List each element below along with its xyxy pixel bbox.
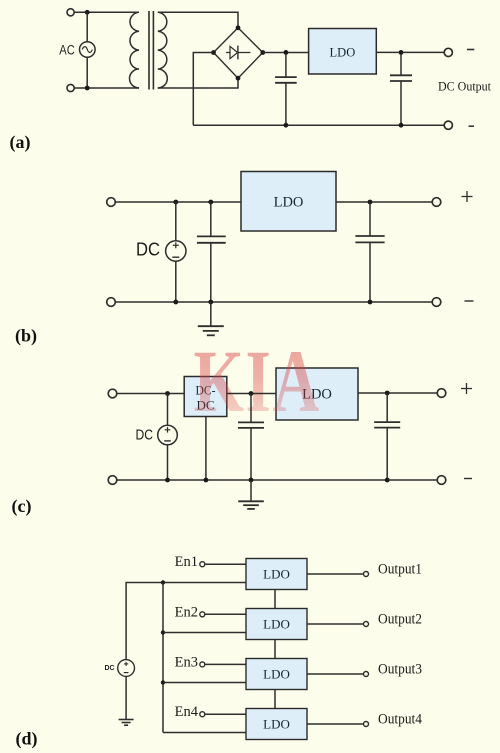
svg-text:LDO: LDO [263, 666, 290, 681]
regulator U1 LDO [309, 29, 377, 75]
terminal: b output minus [432, 298, 441, 307]
regulator U8 LDO [246, 709, 307, 740]
junction: c C6 top [385, 391, 390, 396]
junction: C2 top [399, 50, 404, 55]
wire: d DC to ground [125, 676, 127, 719]
junction: b C3 top [208, 200, 213, 205]
wire: En2 [205, 613, 246, 615]
junction: bridge bottom [236, 76, 241, 81]
regulator U2 LDO [241, 172, 336, 232]
wire: link U7-U8 [274, 690, 276, 709]
label: output top dash [467, 49, 474, 51]
wire: secondary bottom to bridge [158, 78, 238, 88]
wire: bottom rail (a) [193, 124, 444, 126]
junction: AC bottom [85, 86, 90, 91]
wire: LDO to output [376, 51, 444, 53]
DC source V2 [166, 241, 186, 261]
ground: c [238, 480, 264, 509]
svg-text:(b): (b) [15, 326, 37, 347]
junction: c C5 top [249, 391, 254, 396]
svg-text:LDO: LDO [263, 716, 290, 731]
wire: branch LDO3 [163, 682, 246, 684]
bridge rectifier D1 [214, 28, 263, 78]
label: c minus sign [464, 478, 472, 480]
terminal: DC output minus [444, 121, 452, 129]
capacitor C2 [390, 52, 412, 125]
junction: b gnd [208, 300, 213, 305]
svg-text:En3: En3 [175, 654, 198, 670]
terminal: En4 [200, 712, 205, 717]
wire: Output3 [307, 673, 363, 675]
transformer T1 core [149, 11, 153, 90]
svg-text:LDO: LDO [263, 566, 290, 581]
wire: En3 [205, 663, 246, 665]
capacitor C6 [374, 393, 400, 480]
label: b minus sign [465, 300, 474, 302]
wire: b output [336, 201, 433, 203]
wire: d supply bus [162, 583, 164, 733]
regulator U3 DC-DC [184, 377, 227, 417]
regulator U4 LDO [276, 368, 358, 420]
terminal: b input bottom [107, 298, 116, 307]
wire: top-left lead [74, 11, 139, 13]
terminal: Output2 [364, 622, 369, 627]
svg-text:Output2: Output2 [378, 612, 422, 628]
wire: Output1 [307, 573, 363, 575]
wire: link U6-U7 [274, 640, 276, 659]
label: b plus sign [462, 191, 473, 202]
terminal: En1 [200, 562, 205, 567]
label: c plus sign [461, 383, 472, 394]
wire: AC source vertical [86, 12, 88, 88]
junction: d bus top [161, 580, 165, 584]
wire: bottom-left lead [74, 87, 139, 89]
terminal: c output plus [437, 389, 446, 398]
terminal: b input top [107, 198, 116, 207]
terminal: c input bottom [108, 476, 117, 485]
junction: c DC bottom [165, 478, 170, 483]
terminal: DC output plus [444, 48, 452, 56]
wire: En4 [205, 713, 246, 715]
svg-text:(d): (d) [16, 729, 38, 750]
svg-text:LDO: LDO [274, 195, 304, 211]
svg-text:DC: DC [136, 428, 154, 444]
wire: branch LDO2 [163, 632, 246, 634]
junction: AC top [85, 10, 90, 15]
junction: bridge left [211, 50, 216, 55]
wire: c output [358, 392, 438, 394]
wire: bridge left to bottom rail [193, 53, 213, 126]
terminal: AC input bottom [67, 84, 74, 91]
wire: En1 [205, 563, 246, 565]
regulator U5 LDO [246, 559, 307, 590]
wire: d supply riser [126, 583, 246, 660]
wire: bridge right to LDO [263, 52, 309, 54]
svg-text:En4: En4 [175, 704, 199, 720]
junction: bridge right [260, 50, 265, 55]
terminal: AC input top [67, 9, 74, 16]
ground: d [119, 720, 134, 726]
wire: c bottom rail [116, 479, 437, 481]
junction: c DCDC gnd [204, 478, 209, 483]
wire: secondary top to bridge [158, 12, 238, 27]
wire: Output2 [307, 623, 363, 625]
svg-text:AC: AC [59, 43, 75, 58]
svg-text:DC: DC [105, 665, 115, 672]
DC source V4 [118, 660, 135, 677]
svg-text:Output3: Output3 [378, 662, 422, 678]
junction: c DC top [165, 391, 170, 396]
svg-text:En2: En2 [175, 604, 198, 620]
regulator U6 LDO [246, 609, 307, 640]
terminal: En2 [200, 612, 205, 617]
junction: b DC bottom [173, 300, 178, 305]
junction: b C4 bottom [368, 300, 373, 305]
terminal: Output1 [364, 572, 369, 577]
ground: b [198, 302, 224, 335]
capacitor C1 [275, 52, 297, 125]
DC source V3 [158, 425, 178, 445]
junction: bridge top [236, 25, 241, 30]
AC source V1 [80, 42, 96, 58]
wire: Output4 [307, 723, 363, 725]
svg-text:LDO: LDO [330, 46, 356, 60]
transformer T1 secondary winding [158, 12, 168, 88]
terminal: b output plus [432, 198, 441, 207]
junction: d bus 2 [161, 630, 165, 634]
capacitor C3 [197, 202, 226, 302]
wire: c top rail left [116, 393, 184, 395]
junction: C1 bottom [284, 123, 289, 128]
terminal: Output4 [364, 722, 369, 727]
wire: b bottom rail [115, 301, 433, 303]
junction: C1 top [284, 50, 289, 55]
junction: d bus 3 [161, 680, 165, 684]
wire: DC-DC ground pin [205, 417, 207, 481]
wire: DC-DC to LDO [227, 393, 276, 395]
label: output bottom dash [469, 125, 475, 127]
terminal: En3 [200, 662, 205, 667]
terminal: c output minus [437, 476, 446, 485]
wire: c DC vertical [167, 394, 169, 481]
wire: link U5-U6 [274, 590, 276, 609]
svg-text:DC: DC [136, 240, 160, 260]
junction: c C6 bottom [385, 478, 390, 483]
regulator U7 LDO [246, 659, 307, 690]
wire: b DC vertical [175, 202, 177, 302]
svg-text:(c): (c) [12, 496, 32, 517]
junction: b C4 top [368, 200, 373, 205]
svg-text:Output1: Output1 [378, 562, 422, 578]
junction: c gnd [249, 478, 254, 483]
junction: b DC top [173, 200, 178, 205]
svg-text:KIA: KIA [193, 331, 320, 430]
svg-text:Output4: Output4 [378, 712, 423, 728]
terminal: c input top [108, 389, 117, 398]
capacitor C5 [238, 394, 264, 481]
svg-text:LDO: LDO [263, 616, 290, 631]
svg-text:(a): (a) [10, 132, 31, 153]
capacitor C4 [355, 202, 384, 302]
transformer T1 primary winding [130, 12, 140, 88]
terminal: Output3 [364, 672, 369, 677]
svg-text:En1: En1 [175, 554, 198, 570]
svg-text:DC Output: DC Output [438, 80, 491, 94]
wire: branch LDO4 [163, 732, 246, 734]
wire: b top rail [115, 201, 241, 203]
junction: C2 bottom [399, 123, 404, 128]
